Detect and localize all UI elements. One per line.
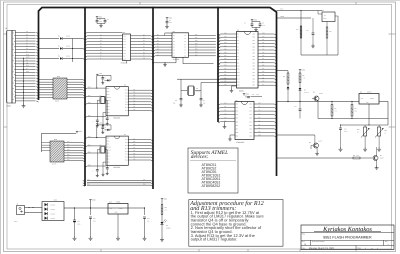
capacitor channel U6 c1 [96,119,99,121]
svg-text:P02: P02 [195,40,198,42]
svg-text:P32: P32 [224,74,227,76]
svg-text:D6: D6 [100,52,102,54]
capacitor C13 [312,18,314,33]
U3 bottom routing wires [175,57,177,63]
svg-text:33p: 33p [173,102,175,104]
svg-text:R6: R6 [283,76,285,78]
svg-text:P16: P16 [258,110,261,112]
ground R12 [364,147,366,149]
capacitor C10 [74,207,75,208]
svg-text:C12: C12 [147,218,150,220]
wire channel U6 top rail [97,74,111,76]
svg-text:P15: P15 [133,95,136,97]
svg-text:D6: D6 [143,52,145,54]
svg-text:D5: D5 [143,49,145,51]
crystal Y2 [189,86,194,96]
diode D U7 [107,129,109,131]
svg-text:P34: P34 [236,118,239,120]
svg-text:P16: P16 [262,55,265,57]
svg-text:P1.6: P1.6 [125,93,128,95]
svg-text:RST: RST [107,138,110,140]
wire crystal top [180,79,182,98]
svg-text:P30: P30 [88,152,91,154]
svg-text:RST: RST [224,65,227,67]
svg-text:1000u: 1000u [77,224,81,226]
svg-text:R12: R12 [357,129,360,131]
svg-text:P13: P13 [258,120,261,122]
capacitor C15 tantalum [340,125,342,128]
svg-text:D3: D3 [26,40,28,42]
svg-text:OE: OE [143,58,145,60]
resistor R14 [161,201,163,205]
svg-text:470: 470 [335,110,337,112]
svg-text:P2: P2 [237,40,239,42]
svg-text:A8: A8 [173,55,175,57]
IC U6 AT89C2051 [106,87,128,116]
diode D3 [39,58,60,60]
svg-text:ERR: ERR [26,71,29,73]
svg-text:P14: P14 [262,49,265,51]
svg-text:P10: P10 [250,135,253,137]
wire Q4 collector [376,147,378,156]
svg-text:D7: D7 [100,55,102,57]
J1 ground collector wire [23,58,25,104]
wire bridge out [64,207,75,209]
svg-text:P37: P37 [253,40,256,42]
svg-text:VCC: VCC [262,33,265,35]
svg-text:A5: A5 [173,47,175,49]
svg-text:P03: P03 [195,43,198,45]
svg-text:TxD: TxD [87,179,89,181]
svg-text:P38: P38 [236,132,239,134]
svg-text:89C2051: 89C2051 [114,117,121,120]
wire jack to bridge [25,207,43,209]
svg-text:BAT85: BAT85 [66,56,70,58]
svg-text:P04: P04 [195,46,198,48]
svg-text:P1.4: P1.4 [125,98,128,100]
svg-text:A14: A14 [262,68,265,70]
svg-text:C7: C7 [203,100,205,102]
wire channel U7 top rail [97,124,111,126]
ground C15 [340,147,342,149]
U5 left pin wires [220,103,235,105]
svg-text:P25: P25 [253,78,256,80]
svg-text:BAT85: BAT85 [66,36,70,38]
svg-text:P30: P30 [88,102,91,104]
wire LM317 adj [368,104,370,125]
resistor R7 [331,102,333,105]
svg-text:470: 470 [165,209,167,211]
svg-text:P13: P13 [250,125,253,127]
svg-text:D10: D10 [54,199,57,201]
power flag cluster B [166,18,168,20]
svg-text:P30: P30 [253,62,256,64]
wire LOAD line [277,17,312,19]
IC U5 socket AT89C2051 [235,102,254,140]
ground U10 [117,236,119,238]
svg-text:RxD: RxD [143,184,146,186]
wire RN2 common [41,133,43,152]
resistor R8 [351,102,353,105]
IC U3 74HC541 [172,33,189,58]
svg-text:TxD: TxD [143,179,145,181]
svg-text:4.7K: 4.7K [303,77,306,79]
svg-text:D5: D5 [26,45,28,47]
bus vertical B3 [152,7,154,189]
svg-text:1K: 1K [357,131,359,133]
svg-text:SEL: SEL [26,62,29,64]
svg-text:1: 1 [388,243,389,246]
svg-text:P0: P0 [237,34,239,36]
svg-text:P1.1: P1.1 [125,107,128,109]
svg-text:P15: P15 [250,118,253,120]
svg-text:devices:: devices: [191,154,209,160]
svg-text:P27: P27 [253,72,256,74]
svg-text:P4: P4 [237,46,239,48]
svg-text:P14: P14 [133,147,136,149]
wire crystal U7 [97,149,100,151]
svg-text:PSE: PSE [224,61,227,63]
svg-text:ADJ: ADJ [366,102,369,104]
svg-text:P15: P15 [258,113,261,115]
note box adjustment procedure [189,200,283,247]
diode D2 [39,48,60,50]
svg-text:BC547: BC547 [380,157,384,159]
svg-text:D1: D1 [26,34,28,36]
capacitor C U6a [102,75,104,77]
svg-text:TANT: TANT [344,131,347,133]
capacitor C7 [200,98,203,100]
svg-text:P14: P14 [258,117,261,119]
capacitor channel U6 c2 [106,117,109,119]
svg-text:P11: P11 [250,132,252,134]
svg-text:10u: 10u [147,221,149,223]
svg-text:BUSY: BUSY [26,57,30,59]
svg-text:P19: P19 [250,104,253,106]
wire regulator ground [117,214,119,236]
svg-text:P12: P12 [133,103,136,105]
svg-text:1A2: 1A2 [123,41,126,43]
svg-text:P00: P00 [195,34,198,36]
wire RST U7 [97,137,106,139]
svg-text:P11: P11 [133,156,135,158]
svg-text:VCC: VCC [99,122,102,124]
svg-text:P15: P15 [237,82,240,84]
bus top horizontal [39,8,277,13]
svg-text:P10: P10 [262,36,265,38]
svg-text:A3: A3 [173,41,175,43]
svg-text:P10: P10 [237,66,240,68]
wire crystal U6 [97,99,100,101]
svg-text:XTAL2: XTAL2 [107,97,111,99]
svg-text:U9: U9 [360,92,362,94]
power flag VCC RN2 [76,131,78,133]
ground C7 [200,103,202,105]
svg-text:C1: C1 [99,19,101,21]
svg-text:P31: P31 [224,71,227,73]
svg-text:34064: 34064 [323,18,327,20]
svg-text:P8: P8 [237,59,239,61]
capacitor C U7a [102,125,104,127]
svg-text:PE: PE [26,60,28,62]
svg-text:P13: P13 [262,45,265,47]
ground U2 [126,61,128,64]
svg-text:D0: D0 [143,34,145,36]
svg-text:P1.4: P1.4 [125,148,128,150]
svg-text:AD2: AD2 [224,39,227,41]
svg-text:P16: P16 [133,92,136,94]
svg-text:Q4: Q4 [380,155,382,157]
crystal Y U7 [101,146,104,153]
svg-text:P1.5: P1.5 [125,96,128,98]
trimmer R13 [378,127,381,136]
svg-text:A11: A11 [262,77,264,79]
svg-text:P31: P31 [88,95,91,97]
svg-text:RST: RST [88,87,91,89]
IC U7 left bus wires [87,137,97,139]
svg-text:P18: P18 [250,107,253,109]
svg-text:P31: P31 [88,144,91,146]
U3 right pin wires [189,35,216,37]
diode D5 [299,83,301,89]
svg-text:A15: A15 [262,65,265,67]
svg-text:P10: P10 [133,109,136,111]
IC U7 AT89C2051 [106,136,128,165]
title block date row [355,246,357,250]
svg-text:C: C [93,121,94,123]
svg-text:AD7: AD7 [224,55,227,57]
frame zone ticks [100,249,102,252]
svg-text:P15: P15 [133,144,136,146]
svg-text:8x4.7K: 8x4.7K [52,164,56,166]
svg-text:P1.2: P1.2 [125,154,128,156]
svg-text:P05: P05 [195,49,198,51]
U2 right pin wires [131,35,142,37]
power flag LED [161,199,163,201]
svg-text:P24: P24 [253,82,256,84]
ground C10 [74,236,76,238]
svg-text:P11: P11 [258,127,260,129]
svg-text:P15: P15 [67,154,70,156]
svg-text:P10: P10 [258,131,261,133]
svg-text:Y7: Y7 [184,53,186,55]
svg-text:1A3: 1A3 [123,44,126,46]
svg-text:C4: C4 [244,23,246,25]
ground IC U7 [103,161,106,163]
svg-text:D5: D5 [100,49,102,51]
wire supervisor left drop [300,11,302,56]
IC U6 right pin wires [128,89,151,91]
svg-text:10uF: 10uF [256,94,259,96]
ground bus B4 end [224,122,226,125]
svg-text:J1: J1 [5,27,7,30]
resistor R5 [299,72,301,74]
svg-text:P14: P14 [250,121,253,123]
svg-text:D6: D6 [26,48,28,50]
svg-text:P17: P17 [258,106,261,108]
svg-text:A13: A13 [262,71,265,73]
svg-text:C5: C5 [262,23,264,25]
resistor network RN2 [50,141,64,162]
svg-text:P12: P12 [250,128,253,130]
diode D6 zener [287,87,290,89]
svg-text:AD1: AD1 [224,36,227,38]
svg-text:A2: A2 [173,38,175,40]
svg-text:D1: D1 [143,37,145,39]
svg-text:P37: P37 [236,128,239,130]
svg-text:RST: RST [107,88,110,90]
svg-text:D1: D1 [157,37,159,39]
svg-text:LM317: LM317 [367,92,372,94]
svg-text:C14: C14 [294,106,297,108]
svg-text:D5: D5 [304,90,306,92]
svg-text:Y6: Y6 [184,50,186,52]
svg-text:1K: 1K [385,132,387,134]
svg-text:D4: D4 [26,42,28,44]
connector J2 DC jack [17,206,25,215]
svg-text:P32: P32 [253,56,256,58]
svg-text:R7: R7 [335,108,337,110]
svg-text:P3.1: P3.1 [107,144,110,146]
svg-text:P34: P34 [253,50,256,52]
U3 top rail [165,32,172,34]
svg-text:P14: P14 [67,151,70,153]
svg-text:P31: P31 [224,110,227,112]
IC U8 MC34064 [322,12,335,22]
capacitor C1 [96,19,98,21]
trimmer R12 [364,127,367,136]
capacitor C12 [144,208,146,215]
svg-text:A4: A4 [173,44,175,46]
svg-text:AD6: AD6 [224,52,227,54]
connector J1 DB25 [6,31,12,104]
svg-text:U6: U6 [124,85,126,87]
svg-text:P12: P12 [67,146,70,148]
resistor R16 [300,26,302,38]
ground cluster C [252,27,260,29]
bus vertical B2 [84,7,86,186]
ground for J1 [23,104,25,106]
bus vertical B5 [276,12,278,177]
IC U7 right pin wires [128,139,151,141]
svg-text:C: C [93,170,94,172]
svg-text:C8: C8 [252,94,254,96]
svg-text:Q3: Q3 [313,92,315,94]
svg-text:P10: P10 [133,159,136,161]
svg-text:P16: P16 [250,114,253,116]
svg-text:GND: GND [115,212,118,214]
svg-text:1N4007: 1N4007 [51,209,56,211]
svg-text:Y8: Y8 [184,55,186,57]
svg-text:78S05: 78S05 [116,202,120,204]
svg-text:Kyriakos Kontakos: Kyriakos Kontakos [322,226,372,233]
svg-text:P06: P06 [195,52,198,54]
svg-text:AF: AF [26,68,28,70]
svg-text:ALE: ALE [224,58,227,60]
wire regulator out [144,207,145,208]
svg-text:P12: P12 [237,72,240,74]
svg-text:Monday, March 19, 2001: Monday, March 19, 2001 [309,247,335,250]
svg-text:Y1: Y1 [184,35,186,37]
svg-text:D3: D3 [157,43,159,45]
svg-text:P35: P35 [253,46,256,48]
svg-text:AD0: AD0 [224,33,227,35]
svg-text:P30: P30 [224,68,227,70]
svg-text:100n: 100n [169,22,172,24]
svg-text:VCC: VCC [99,73,102,75]
svg-text:C6: C6 [175,100,177,102]
svg-text:D4: D4 [100,46,102,48]
capacitor C3 [166,20,168,22]
svg-text:P36: P36 [253,43,256,45]
ground C6 [180,103,182,105]
ground C12 [144,236,146,238]
svg-text:P1.3: P1.3 [125,151,128,153]
svg-text:D3: D3 [143,43,145,45]
resistor R9 [353,157,360,159]
svg-text:VIN: VIN [361,98,363,100]
svg-text:P1.5: P1.5 [125,145,128,147]
wire stub under diodes [72,39,74,63]
crystal Y U6 [101,97,104,104]
resistor R15 [326,22,328,28]
svg-text:1A0: 1A0 [123,35,126,37]
svg-text:P17: P17 [133,138,136,140]
svg-text:P10: P10 [67,141,70,143]
capacitor C8 [245,96,247,98]
svg-text:D0: D0 [157,34,159,36]
svg-text:VOUT: VOUT [119,208,123,210]
ground cluster B [166,25,168,27]
power flag U5 [243,94,245,96]
svg-text:1: 1 [377,247,378,250]
ground C11 [90,236,92,238]
svg-text:P28: P28 [253,69,256,71]
svg-text:Y5: Y5 [184,47,186,49]
svg-text:P33: P33 [236,114,239,116]
svg-text:100n: 100n [93,221,96,223]
svg-text:C11: C11 [93,218,96,220]
svg-text:1A7: 1A7 [123,56,126,58]
U4 right pin wires [258,33,274,35]
transistor Q5 [313,143,318,148]
svg-text:D2: D2 [100,40,102,42]
svg-text:R5: R5 [303,75,305,77]
svg-text:GND: GND [258,135,261,137]
svg-text:P1: P1 [237,37,239,39]
svg-text:DB25: DB25 [7,105,11,108]
svg-text:XT2: XT2 [224,113,227,115]
svg-text:R13: R13 [385,130,388,132]
svg-text:89C51: 89C51 [239,90,244,93]
svg-text:R14: R14 [165,207,168,209]
svg-text:BAT85: BAT85 [66,46,70,48]
svg-text:A6: A6 [173,50,175,52]
IC U4 ZIF socket 89C51 [237,32,259,89]
svg-text:10uF: 10uF [262,25,265,27]
svg-text:P32: P32 [236,111,239,113]
wire trim rail [340,124,388,126]
svg-text:1N4007: 1N4007 [51,214,56,216]
svg-text:RST: RST [88,136,91,138]
svg-text:P15: P15 [262,52,265,54]
svg-text:P3.0: P3.0 [107,141,110,143]
svg-text:D2: D2 [58,46,60,48]
svg-text:1A4: 1A4 [123,47,126,49]
svg-text:A10: A10 [262,81,265,83]
svg-text:1A1: 1A1 [123,38,126,40]
svg-text:D0: D0 [26,31,28,33]
